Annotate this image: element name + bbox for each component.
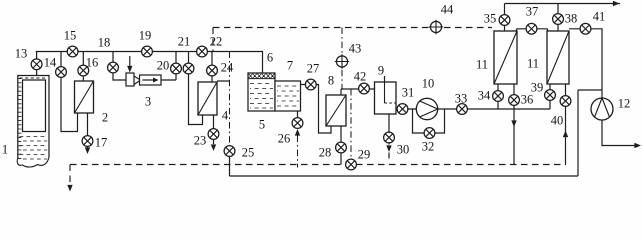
svg-text:42: 42: [354, 69, 367, 83]
svg-text:8: 8: [328, 73, 334, 87]
svg-text:37: 37: [526, 4, 539, 18]
svg-text:14: 14: [44, 55, 57, 69]
svg-text:32: 32: [422, 139, 435, 153]
svg-text:11: 11: [527, 56, 539, 70]
svg-text:38: 38: [565, 11, 578, 25]
svg-text:13: 13: [15, 46, 28, 60]
svg-text:16: 16: [86, 55, 99, 69]
svg-text:22: 22: [210, 34, 223, 48]
svg-text:12: 12: [618, 96, 631, 110]
svg-text:26: 26: [278, 131, 291, 145]
svg-text:39: 39: [531, 80, 544, 94]
svg-text:11: 11: [476, 57, 488, 71]
svg-text:3: 3: [145, 94, 151, 108]
svg-text:34: 34: [478, 88, 491, 102]
svg-text:23: 23: [194, 133, 207, 147]
svg-text:30: 30: [397, 142, 410, 156]
svg-text:10: 10: [422, 76, 435, 90]
svg-text:21: 21: [178, 34, 191, 48]
svg-text:7: 7: [287, 58, 293, 72]
svg-text:25: 25: [242, 145, 255, 159]
svg-text:4: 4: [222, 108, 229, 122]
svg-text:41: 41: [593, 9, 606, 23]
svg-text:5: 5: [259, 117, 265, 131]
svg-text:1: 1: [2, 142, 8, 156]
svg-text:35: 35: [484, 11, 497, 25]
svg-text:17: 17: [95, 135, 108, 149]
svg-text:44: 44: [441, 2, 454, 16]
svg-text:28: 28: [319, 145, 332, 159]
svg-text:19: 19: [139, 28, 152, 42]
svg-text:31: 31: [402, 85, 415, 99]
svg-text:33: 33: [455, 91, 468, 105]
svg-text:18: 18: [98, 35, 111, 49]
svg-text:9: 9: [378, 63, 384, 77]
svg-text:43: 43: [349, 41, 362, 55]
svg-text:29: 29: [358, 147, 371, 161]
svg-text:36: 36: [521, 92, 534, 106]
svg-text:20: 20: [157, 58, 170, 72]
svg-text:40: 40: [551, 113, 564, 127]
svg-text:27: 27: [307, 61, 320, 75]
svg-text:6: 6: [267, 50, 273, 64]
svg-text:2: 2: [102, 110, 108, 124]
svg-text:15: 15: [64, 28, 77, 42]
svg-text:24: 24: [221, 60, 234, 74]
